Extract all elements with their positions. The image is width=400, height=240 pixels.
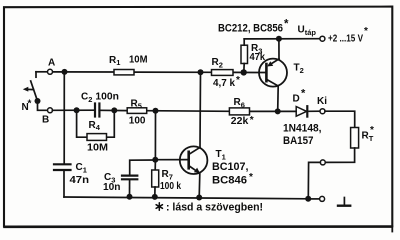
terminal lower output (open circle) (320, 160, 325, 165)
transistor T1 (180, 146, 208, 174)
svg-text:R6: R6 (234, 97, 245, 109)
node C3 ground dot (127, 194, 133, 200)
capacitor C1 (54, 72, 71, 197)
node T2 collector junction dot (275, 108, 281, 114)
capacitor C2 (95, 104, 99, 117)
svg-text:*: * (364, 26, 368, 37)
svg-text:R1: R1 (109, 55, 120, 67)
ground symbol (338, 198, 350, 206)
svg-text:10n: 10n (103, 182, 121, 193)
wire T2 collector down (277, 86, 280, 112)
svg-text:BC846: BC846 (212, 175, 247, 187)
svg-text:C1: C1 (76, 162, 87, 174)
wire C3 top link (130, 160, 156, 175)
svg-text:+2 ...15 V: +2 ...15 V (328, 34, 363, 45)
node C2 right junction dot (111, 107, 117, 113)
svg-text:*: * (370, 125, 374, 136)
svg-text:T2: T2 (294, 63, 304, 75)
svg-text:4,7 k: 4,7 k (213, 78, 235, 89)
svg-text:R4: R4 (89, 120, 101, 132)
svg-text:47k: 47k (250, 52, 266, 63)
resistor R4 loop wires (77, 110, 115, 137)
svg-text:*: * (301, 88, 306, 100)
svg-text:BC212, BC856: BC212, BC856 (218, 23, 283, 35)
node R3-R2-T2 base junction dot (241, 69, 247, 75)
wire switch stub (35, 72, 37, 77)
wire base to T1 (155, 159, 188, 161)
resistor R1 (114, 70, 134, 75)
capacitor C3 (122, 176, 137, 197)
resistor R4 (87, 134, 107, 141)
node T2 emitter supply dot (276, 36, 282, 42)
svg-text:T1: T1 (216, 149, 226, 161)
switch pole node N dot (35, 98, 41, 104)
svg-text:Utáp: Utáp (298, 25, 317, 37)
svg-text:D: D (293, 93, 300, 104)
node ground rail end dot (305, 196, 311, 202)
wire B rail (52, 110, 320, 111)
resistor RT (351, 128, 359, 149)
terminal B (open circle) (48, 108, 53, 113)
wire RT bottom to lower terminal (325, 148, 354, 162)
svg-text:*: * (249, 172, 253, 183)
svg-text:100: 100 (129, 115, 146, 126)
svg-text:R7: R7 (162, 169, 173, 181)
transistor T2 (259, 59, 287, 87)
wire supply rail (244, 38, 320, 40)
wire T1 base branch (154, 111, 156, 160)
wire N to B rail (38, 101, 48, 110)
node T1 emitter ground dot (196, 195, 202, 201)
terminal Ki (open circle) (320, 109, 325, 114)
svg-text:BA157: BA157 (283, 135, 314, 147)
wire lower terminal link down (308, 162, 320, 198)
switch actuation arrow (23, 87, 34, 92)
resistor R3 (241, 39, 248, 72)
node B-C2 left junction dot (74, 107, 80, 113)
svg-text:10M: 10M (129, 55, 148, 66)
terminal A (open circle) (48, 69, 53, 74)
switch arm (31, 81, 38, 101)
wire ground rail (64, 197, 308, 199)
wire Ki to RT (325, 111, 355, 127)
wire stub to ground terminal (308, 198, 319, 200)
wire T2 emitter up (278, 39, 280, 59)
svg-text:47n: 47n (70, 175, 90, 186)
resistor R6 (229, 108, 249, 115)
wire T1 collector up (199, 72, 202, 147)
svg-text:Ki: Ki (317, 96, 327, 107)
svg-text:B: B (42, 115, 49, 126)
wire node A horizontal rail (36, 71, 265, 74)
resistor R7 (152, 160, 159, 197)
resistor R2 (212, 70, 234, 76)
node R7 ground dot (152, 194, 158, 200)
diode D (296, 106, 307, 116)
svg-text:R2: R2 (212, 57, 223, 69)
svg-text:*: * (236, 75, 240, 86)
svg-text:R5: R5 (131, 98, 142, 110)
terminal ground (open circle) (320, 196, 325, 201)
node R5 right junction dot (153, 108, 159, 114)
svg-text:A: A (48, 58, 55, 69)
svg-text:100 k: 100 k (160, 181, 181, 192)
svg-text:BC107,: BC107, (212, 161, 249, 173)
node A junction dot (62, 69, 68, 75)
svg-text:1N4148,: 1N4148, (283, 123, 322, 135)
svg-text:*: * (250, 115, 254, 126)
svg-text:: lásd a szövegben!: : lásd a szövegben! (166, 202, 263, 214)
node T1 collector junction dot (198, 69, 204, 75)
svg-text:*: * (28, 99, 32, 110)
svg-text:22k: 22k (231, 116, 249, 127)
node T1 base junction dot (152, 157, 158, 163)
terminal supply (open circle) (320, 36, 325, 41)
wire T1 emitter down (198, 174, 201, 198)
resistor R5 (127, 108, 147, 114)
svg-text:C2100n: C2100n (81, 92, 119, 104)
svg-text:*: * (284, 19, 289, 31)
svg-text:10M: 10M (87, 143, 108, 154)
